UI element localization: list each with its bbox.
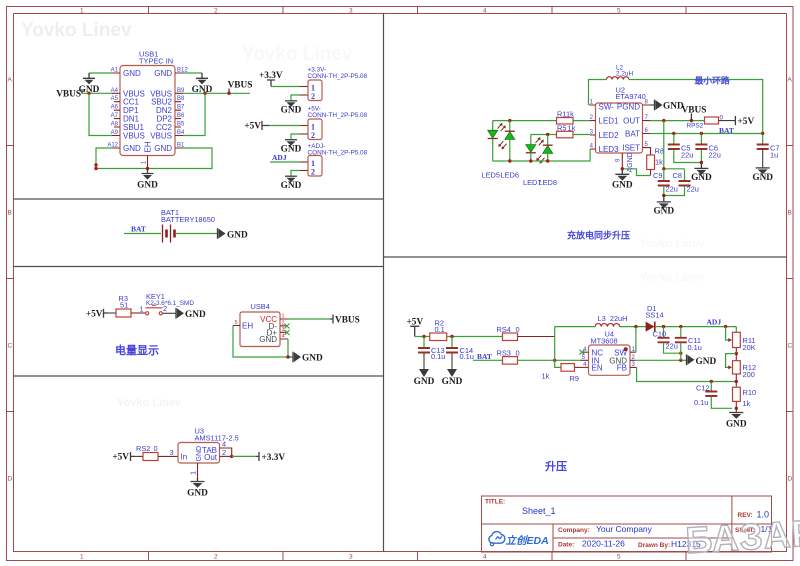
svg-text:C: C: [788, 343, 793, 350]
svg-text:5: 5: [235, 320, 238, 326]
svg-text:2: 2: [222, 448, 226, 457]
connector J +3.3V pin2 stub: [300, 94, 308, 96]
U4 mark dot: [624, 347, 628, 351]
wire PGND to GND: [650, 104, 654, 106]
svg-text:R10: R10: [743, 388, 757, 397]
capacitor C6: [700, 134, 702, 145]
svg-text:BATTERY18650: BATTERY18650: [161, 215, 215, 224]
svg-text:GND: GND: [726, 420, 747, 430]
svg-text:1k: 1k: [743, 399, 751, 408]
svg-text:0.1: 0.1: [435, 325, 445, 334]
capacitor C13: [423, 337, 425, 348]
wire R1 to LED1: [573, 120, 590, 122]
svg-text:Yovko Linev: Yovko Linev: [21, 20, 132, 41]
resistor R12 pot: [733, 361, 741, 374]
inductor L3: [595, 324, 619, 327]
U3 pin1 stub: [197, 463, 199, 478]
svg-text:升压: 升压: [545, 459, 567, 473]
svg-text:0.1u: 0.1u: [688, 343, 702, 352]
svg-text:Drawn By:: Drawn By:: [638, 542, 670, 549]
section divider left C/D: [14, 375, 384, 377]
svg-text:In: In: [181, 452, 188, 461]
connector J +3.3V pin1 stub: [300, 86, 308, 88]
junction BAT C5: [672, 132, 675, 135]
LED5: [492, 121, 494, 130]
svg-text:200: 200: [743, 370, 755, 379]
resistor R2: [430, 333, 447, 341]
svg-text:1k: 1k: [568, 124, 576, 133]
svg-text:GND: GND: [653, 207, 674, 217]
wire Out to +3.3V: [232, 455, 256, 457]
svg-text:LED3: LED3: [599, 145, 620, 154]
wire BAT to battery: [124, 233, 161, 235]
svg-text:Yovko Linev: Yovko Linev: [242, 44, 353, 65]
junction on VBUS left: [87, 92, 90, 95]
svg-text:3: 3: [282, 327, 285, 333]
svg-text:1: 1: [80, 554, 84, 561]
svg-text:EH: EH: [144, 141, 153, 152]
svg-text:22u: 22u: [666, 185, 678, 194]
resistor RS3: [503, 357, 518, 365]
svg-text:C12: C12: [696, 384, 710, 393]
U2 left pin stubs: [589, 105, 596, 149]
wire LED bottom rail: [493, 149, 590, 161]
wire BAT to RS3: [473, 359, 503, 361]
key KEY1: [146, 312, 149, 315]
title block date line: [553, 537, 732, 539]
junction IN: [553, 359, 556, 362]
USB1 right pin stubs: [175, 73, 183, 148]
zone column ticks bottom: [149, 552, 687, 561]
wire B9 VBUS right: [183, 92, 250, 94]
IC U2 body: [596, 103, 643, 153]
junction rail LED8: [546, 159, 549, 162]
ground under R10: [729, 412, 743, 414]
svg-text:Yovko Linev: Yovko Linev: [640, 272, 705, 284]
wire pin2 to GND conn2: [291, 134, 300, 139]
wire GND pin down: [287, 339, 289, 357]
svg-text:LED5: LED5: [482, 171, 501, 180]
junction rail LED7: [529, 159, 532, 162]
resistor RS2: [143, 453, 158, 461]
svg-text:GND: GND: [185, 310, 206, 320]
capacitor C5: [673, 134, 675, 145]
svg-text:USB4: USB4: [251, 302, 270, 311]
junction AGND: [621, 167, 624, 170]
svg-text:5: 5: [617, 8, 621, 15]
R11 wiper arrow: [726, 327, 729, 340]
U2 pin9 AGND stub: [621, 153, 623, 170]
svg-text:VBUS: VBUS: [123, 132, 145, 141]
resistor RS4: [503, 333, 518, 341]
svg-text:RS2: RS2: [136, 444, 150, 453]
junction BAT C6: [700, 132, 703, 135]
svg-text:1: 1: [80, 8, 84, 15]
svg-text:+5V: +5V: [86, 310, 103, 320]
svg-text:ETA9740: ETA9740: [616, 92, 646, 101]
svg-text:4: 4: [483, 8, 487, 15]
ground arrow PGND: [654, 100, 656, 111]
svg-text:2: 2: [214, 554, 218, 561]
svg-text:0: 0: [516, 349, 520, 358]
connector USB1 body: [120, 66, 175, 156]
LED7: [530, 135, 532, 145]
svg-text:A: A: [8, 77, 13, 84]
svg-text:L3 22uH: L3 22uH: [598, 314, 628, 323]
svg-text:C8: C8: [673, 171, 682, 180]
svg-text:VBUS: VBUS: [335, 316, 360, 326]
svg-text:1: 1: [189, 471, 198, 475]
resistor R1: [557, 118, 574, 125]
svg-text:A7: A7: [111, 113, 119, 119]
wire GND pin to arrow: [635, 359, 687, 361]
wire ADJ to J3: [270, 161, 300, 163]
svg-text:0: 0: [154, 444, 158, 453]
svg-text:2: 2: [311, 168, 315, 177]
ground under C9 C8: [657, 196, 671, 202]
ground under C5 C6: [694, 163, 708, 169]
IC U4 body: [589, 345, 631, 375]
net flag VBUS usb4: [330, 315, 333, 324]
title block outline: [482, 496, 772, 552]
svg-text:K2-3.6*6.1_SMD: K2-3.6*6.1_SMD: [146, 300, 194, 307]
svg-text:LED6: LED6: [501, 171, 520, 180]
svg-text:GND: GND: [442, 377, 463, 387]
junction SW node: [634, 325, 637, 328]
junction FB C12: [710, 380, 713, 383]
svg-text:A5: A5: [111, 96, 119, 102]
junction C10 C11 bottom: [679, 352, 682, 355]
svg-text:1: 1: [142, 160, 148, 164]
svg-text:B7: B7: [177, 105, 185, 111]
svg-text:ADJ: ADJ: [272, 153, 287, 162]
svg-text:3: 3: [349, 8, 353, 15]
power flag +5V eta: [734, 116, 736, 125]
wire ADJ down to R11: [735, 327, 737, 333]
svg-text:D: D: [8, 476, 13, 483]
USB4 right pin stubs: [280, 319, 288, 339]
svg-text:1: 1: [282, 314, 285, 320]
svg-text:CONN-TH_2P-P5.08: CONN-TH_2P-P5.08: [308, 150, 368, 157]
wire SW- top loop: [589, 80, 763, 134]
svg-text:Sheet_1: Sheet_1: [522, 506, 556, 516]
junction C9 top: [662, 167, 665, 170]
svg-text:EN: EN: [592, 364, 603, 373]
watermark BAZAR bottom right: [684, 512, 800, 561]
zone row ticks right: [787, 146, 794, 412]
U4 left pin stubs: [581, 352, 589, 360]
zone column ticks top: [149, 7, 687, 14]
connector CONN-TH +5V body: [308, 119, 322, 140]
svg-text:Yovko Linev: Yovko Linev: [640, 238, 705, 250]
junction LED8 top: [546, 133, 549, 136]
diode D1 SS14: [646, 322, 655, 332]
wire LED rail top: [493, 120, 557, 122]
svg-text:ADJ: ADJ: [707, 317, 722, 326]
ground under U3: [191, 478, 205, 482]
junction OUT C9: [662, 119, 665, 122]
junction R11 wiper: [724, 325, 727, 328]
wire D1 to ADJ rail: [656, 326, 737, 328]
USB1 left pin stubs: [112, 73, 120, 148]
svg-text:TITLE:: TITLE:: [485, 499, 505, 506]
junction C11: [679, 325, 682, 328]
svg-text:BAT: BAT: [131, 225, 146, 234]
wire pin2 to GND: [291, 95, 300, 100]
wire R12 to R10: [735, 374, 737, 387]
connector J +5V pin2 stub: [300, 133, 308, 135]
svg-text:LED2: LED2: [599, 131, 620, 140]
wire LED rail2: [531, 134, 557, 136]
resistor R11 pot: [733, 332, 741, 347]
svg-text:1k: 1k: [566, 109, 574, 118]
svg-text:GND: GND: [259, 335, 277, 344]
wire left vertical to A9: [89, 93, 112, 135]
LED6: [509, 121, 511, 132]
svg-text:VBUS: VBUS: [150, 132, 172, 141]
logo EasyEDA cloud: [489, 532, 505, 546]
svg-text:22u: 22u: [687, 185, 699, 194]
svg-text:B: B: [788, 210, 792, 217]
svg-text:5: 5: [617, 554, 621, 561]
svg-text:+5V: +5V: [738, 117, 755, 127]
svg-text:БАЗАР: БАЗАР: [684, 512, 800, 561]
svg-text:9: 9: [616, 158, 622, 162]
U4 right pin stubs: [630, 352, 637, 367]
svg-text:C10: C10: [653, 329, 667, 338]
svg-text:C9: C9: [653, 171, 662, 180]
junction R11 R12: [735, 352, 738, 355]
svg-text:BAT: BAT: [719, 126, 734, 135]
svg-text:A: A: [788, 77, 793, 84]
svg-text:VBUS: VBUS: [682, 106, 707, 116]
junction B9: [203, 92, 206, 95]
svg-text:GND: GND: [691, 173, 712, 183]
svg-text:D: D: [788, 476, 793, 483]
ground under C7: [756, 167, 770, 169]
R12 wiper arrow: [726, 354, 737, 368]
junction on gnd wire: [679, 359, 682, 362]
ground left of USB1: [83, 73, 95, 78]
junction A12 loop: [94, 163, 97, 166]
svg-text:LED8: LED8: [539, 178, 558, 187]
svg-text:GND: GND: [302, 354, 323, 364]
capacitor C14: [451, 337, 453, 348]
svg-text:SS14: SS14: [646, 310, 664, 319]
regulator U3 body: [178, 443, 220, 464]
svg-text:GND: GND: [154, 69, 172, 78]
svg-text:0.1u: 0.1u: [431, 352, 445, 361]
svg-text:RPS2: RPS2: [687, 123, 704, 130]
svg-text:A6: A6: [111, 105, 119, 111]
inductor L2: [607, 77, 629, 80]
svg-text:1: 1: [140, 305, 144, 314]
wire A12 loop: [96, 148, 212, 169]
capacitor C10: [663, 327, 665, 338]
wire VBUS to A4: [82, 92, 112, 94]
wire B12 to GND: [183, 72, 202, 74]
wire battery to GND: [176, 233, 217, 235]
svg-text:LED1: LED1: [599, 117, 620, 126]
svg-text:BAT: BAT: [477, 352, 492, 361]
junction usb4 gnd: [286, 355, 289, 358]
svg-text:GND: GND: [227, 231, 248, 241]
svg-text:充放电同步升压: 充放电同步升压: [567, 230, 630, 241]
svg-text:CONN-TH_2P-P5.08: CONN-TH_2P-P5.08: [308, 112, 368, 119]
zone row ticks left: [7, 146, 14, 412]
U4 no-connect X NC: [580, 350, 585, 355]
wire R10 bottom: [735, 401, 737, 412]
svg-text:R5: R5: [557, 124, 566, 133]
ground under +5V conn: [285, 139, 297, 141]
LED8 arrows: [538, 155, 545, 162]
svg-text:VBUS: VBUS: [56, 89, 81, 99]
capacitor C9: [663, 169, 665, 181]
junction C14: [450, 335, 453, 338]
wire right vertical to B4: [183, 93, 205, 135]
connector CONN-TH +3.3V body: [308, 80, 322, 101]
resistor R3: [116, 309, 131, 317]
svg-text:A8: A8: [111, 122, 119, 128]
svg-text:22u: 22u: [709, 151, 721, 160]
junction rail LED6: [508, 159, 511, 162]
wire FB stair: [637, 367, 737, 381]
LED6 arrows: [500, 141, 507, 148]
svg-text:AGND: AGND: [627, 152, 634, 172]
USB4 pin EH stub: [233, 325, 240, 327]
svg-text:2: 2: [282, 320, 285, 326]
LED7 arrows: [536, 139, 543, 146]
ground arrow mt: [686, 355, 688, 366]
svg-text:Yovko Linev: Yovko Linev: [117, 397, 182, 409]
svg-text:电量显示: 电量显示: [115, 343, 159, 357]
wire key to GND: [163, 312, 177, 314]
svg-text:2: 2: [163, 304, 167, 313]
junction BAT C7: [761, 132, 764, 135]
wire R8 bottom to AGND: [650, 170, 652, 176]
title block logo cell line: [552, 524, 554, 552]
resistor RPS2: [705, 117, 719, 124]
svg-text:B5: B5: [177, 122, 185, 128]
svg-text:AMS1117-2.5: AMS1117-2.5: [195, 434, 239, 443]
battery BAT1 plates: [162, 225, 164, 243]
U2 right pin stubs: [643, 105, 651, 148]
section divider left B/C: [14, 266, 384, 268]
wire R5 to LED2: [573, 134, 590, 136]
connector CONN-TH ADJ body: [308, 156, 322, 177]
svg-text:0.1u: 0.1u: [460, 352, 474, 361]
wire +5V to RS2: [135, 455, 143, 457]
title block row line: [482, 523, 772, 525]
resistor R10: [733, 387, 741, 401]
connector J ADJ pin1 stub: [300, 161, 308, 163]
junction EH: [146, 167, 149, 170]
svg-text:1u: 1u: [770, 151, 778, 160]
svg-text:EH: EH: [242, 322, 253, 331]
USB4 no-connect X pin3: [285, 330, 290, 335]
svg-text:2: 2: [311, 131, 315, 140]
svg-text:51: 51: [120, 300, 128, 309]
junction FB R12 R10: [735, 380, 738, 383]
USB1 pin EH stub: [147, 156, 149, 169]
svg-text:2.2uH: 2.2uH: [616, 71, 633, 78]
svg-text:+5V: +5V: [244, 122, 261, 132]
ground under USB1: [142, 169, 154, 174]
junction C10: [662, 325, 665, 328]
resistor R9: [561, 364, 575, 372]
wire +5V to J2: [269, 125, 300, 127]
LED5 arrows: [498, 125, 505, 132]
svg-text:B: B: [8, 210, 12, 217]
ground arrow key: [175, 308, 177, 319]
U3 Out stub: [220, 455, 232, 457]
wire junction to gnd arrow: [288, 356, 293, 358]
USB4 no-connect X pin2: [285, 324, 290, 329]
section divider right top/bottom: [384, 256, 787, 258]
wire top rail mt: [555, 326, 646, 328]
svg-text:Company:: Company:: [558, 527, 590, 534]
LED8: [547, 135, 549, 146]
resistor R8: [649, 148, 651, 155]
power flag +3.3V u3: [256, 452, 259, 461]
svg-text:TYPEC IN: TYPEC IN: [139, 57, 173, 66]
svg-text:1k: 1k: [655, 158, 663, 167]
capacitor C7: [762, 134, 764, 145]
wire IN node vertical: [555, 327, 561, 368]
svg-text:22u: 22u: [681, 151, 693, 160]
capacitor C8: [684, 169, 686, 181]
svg-text:GND: GND: [187, 489, 208, 499]
svg-text:Out: Out: [204, 453, 218, 462]
svg-text:R8: R8: [655, 147, 664, 156]
svg-text:GND: GND: [123, 69, 141, 78]
svg-text:GND: GND: [281, 106, 302, 116]
svg-text:GND: GND: [154, 144, 172, 153]
connector J ADJ pin2 stub: [300, 170, 308, 172]
resistor R5: [557, 131, 574, 138]
svg-text:4: 4: [282, 334, 285, 340]
svg-text:0: 0: [516, 325, 520, 334]
junction C13: [422, 335, 425, 338]
svg-text:B8: B8: [177, 96, 185, 102]
svg-text:ISET: ISET: [622, 144, 640, 153]
wire RS3 to IN: [518, 359, 581, 361]
svg-text:R9: R9: [570, 374, 579, 383]
U3 TAB wire: [220, 448, 232, 456]
connector USB4 body: [240, 312, 280, 347]
wire +5V to R2: [415, 336, 430, 338]
ground under AGND: [615, 170, 629, 175]
svg-text:PGND: PGND: [617, 102, 640, 111]
ground arrow down C14: [447, 369, 457, 377]
junction R10 C12: [735, 407, 738, 410]
wire R11 to R12: [735, 348, 737, 361]
ground right of USB1: [196, 73, 208, 78]
junction C5 C6 gnd: [700, 161, 703, 164]
svg-text:GND: GND: [414, 377, 435, 387]
svg-text:RS4: RS4: [497, 325, 511, 334]
svg-text:Date:: Date:: [558, 542, 574, 549]
ground under ADJ conn: [285, 175, 297, 177]
svg-text:BAT: BAT: [625, 130, 640, 139]
svg-text:+3.3V: +3.3V: [262, 453, 286, 463]
svg-text:GND: GND: [123, 144, 141, 153]
wire OUT: [650, 120, 705, 122]
svg-text:GND: GND: [696, 357, 717, 367]
junction VBUS right: [227, 92, 230, 95]
svg-text:最小环路: 最小环路: [695, 75, 730, 86]
wire RS4 to IN node: [518, 336, 555, 338]
